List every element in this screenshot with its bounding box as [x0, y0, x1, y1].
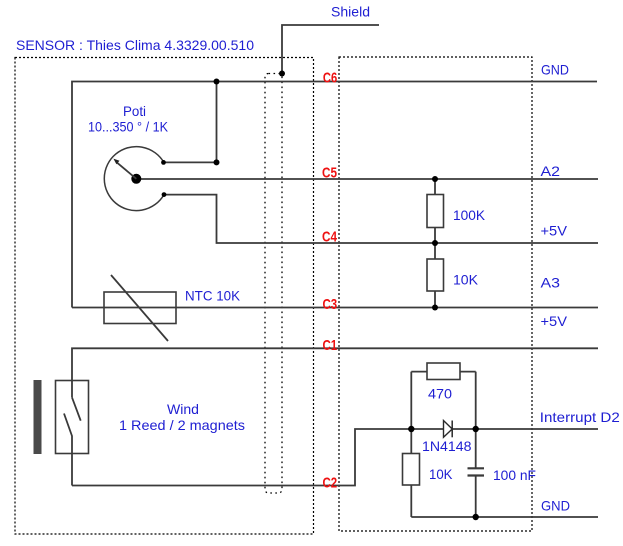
svg-text:1 Reed / 2 magnets: 1 Reed / 2 magnets — [119, 417, 245, 433]
sensor enclosure dashed box — [15, 58, 314, 535]
magnet bar — [34, 380, 42, 454]
svg-text:C5: C5 — [322, 166, 337, 182]
wire right vertical (cap branch) — [475, 372, 477, 469]
diode D1 1N4148 — [444, 421, 453, 438]
reed switch box — [56, 381, 89, 454]
wire C1 / +5V net — [72, 348, 598, 397]
resistor 10K divider — [434, 243, 436, 308]
node divider junction dots — [432, 176, 438, 182]
wire C3 / A3 net with NTC — [72, 307, 598, 309]
wire GND bottom — [411, 516, 598, 518]
svg-text:NTC 10K: NTC 10K — [185, 288, 241, 304]
svg-text:A2: A2 — [541, 163, 561, 179]
wire GND top (C6 net) — [72, 82, 597, 308]
svg-text:C4: C4 — [322, 230, 338, 246]
node shield connection dot — [279, 71, 285, 77]
node interrupt junction dots — [408, 426, 414, 432]
svg-text:100 nF: 100 nF — [493, 467, 536, 483]
potentiometer wiper arrow — [117, 162, 137, 179]
svg-text:GND: GND — [541, 498, 570, 514]
svg-text:Poti: Poti — [123, 103, 146, 119]
node poti terminal dots — [161, 160, 166, 165]
resistor 470 — [411, 371, 475, 373]
wire C5 / A2 net — [136, 178, 598, 180]
svg-text:+5V: +5V — [541, 223, 568, 239]
potentiometer wiper dot — [131, 174, 141, 184]
shield leader wire — [282, 25, 379, 74]
node junction GND/poti — [214, 79, 220, 85]
svg-text:10K: 10K — [453, 272, 479, 288]
svg-text:100K: 100K — [453, 207, 486, 223]
wire left pullup vertical — [410, 372, 412, 517]
svg-text:+5V: +5V — [541, 313, 568, 329]
svg-text:10K: 10K — [429, 466, 453, 482]
svg-text:SENSOR : Thies Clima 4.3329.00: SENSOR : Thies Clima 4.3329.00.510 — [16, 37, 254, 53]
svg-text:1N4148: 1N4148 — [422, 438, 472, 454]
svg-text:C1: C1 — [323, 338, 338, 354]
svg-text:C3: C3 — [323, 297, 338, 313]
potentiometer P1 body — [104, 147, 164, 211]
svg-text:GND: GND — [541, 61, 569, 77]
svg-text:Shield: Shield — [331, 4, 370, 20]
svg-text:C6: C6 — [323, 71, 337, 87]
svg-text:Wind: Wind — [167, 401, 199, 417]
wire poti top terminal — [163, 82, 217, 163]
wire C4 / +5V net — [164, 195, 598, 243]
svg-text:C2: C2 — [323, 476, 338, 492]
resistor 10K pulldown — [403, 454, 420, 486]
capacitor 100 nF — [468, 467, 485, 469]
thermistor NTC body — [104, 292, 176, 324]
reed switch contacts — [72, 397, 81, 420]
wire C2 net — [72, 429, 411, 486]
wire interrupt net — [411, 428, 598, 430]
resistor 100K — [434, 179, 436, 243]
controller module dashed box — [339, 57, 532, 531]
svg-text:Interrupt D2: Interrupt D2 — [540, 409, 620, 425]
cable shield tube (dotted) — [265, 74, 282, 494]
svg-text:10...350 ° / 1K: 10...350 ° / 1K — [88, 119, 169, 135]
svg-text:A3: A3 — [541, 275, 561, 291]
thermistor NTC diagonal — [111, 275, 168, 341]
svg-text:470: 470 — [428, 386, 452, 402]
